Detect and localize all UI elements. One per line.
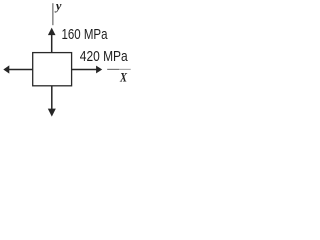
y axis line: [52, 3, 54, 25]
x axis line: [107, 68, 119, 70]
right arrow (sigma x right): [72, 66, 103, 74]
svg-text:X: X: [119, 71, 127, 85]
down arrow (sigma y bottom): [48, 86, 56, 117]
svg-text:420 MPa: 420 MPa: [80, 49, 129, 65]
up arrow (sigma y top): [48, 28, 56, 53]
svg-text:160 MPa: 160 MPa: [62, 27, 109, 43]
svg-text:y: y: [54, 0, 62, 13]
left arrow (sigma x left): [3, 65, 32, 73]
stress element square: [33, 53, 72, 86]
